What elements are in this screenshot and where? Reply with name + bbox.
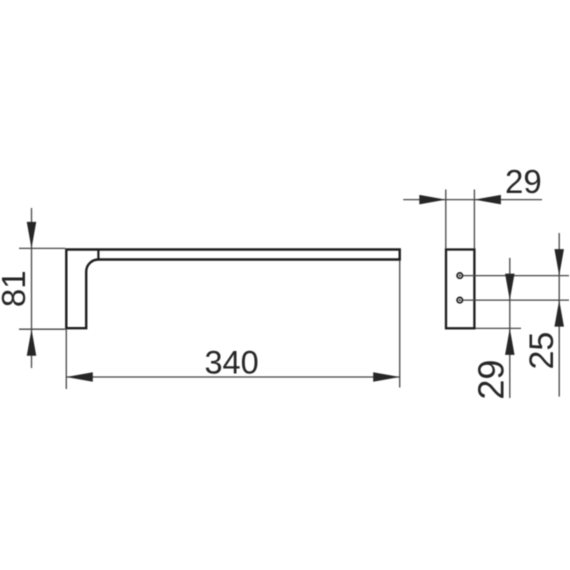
dim 25: arrow up xyxy=(554,300,564,327)
dim 29 bottom: dimension line xyxy=(509,258,511,398)
svg-text:340: 340 xyxy=(204,345,258,381)
svg-text:29: 29 xyxy=(505,163,542,200)
end view rectangle xyxy=(446,250,474,329)
svg-text:81: 81 xyxy=(0,270,32,307)
dim 81: arrow down xyxy=(27,222,37,249)
dim 29 top: arrow pointing left xyxy=(474,195,501,205)
dim 29 top: arrow pointing right xyxy=(419,195,446,205)
hole 2 leader line xyxy=(463,299,569,301)
dim 81: extension line top xyxy=(19,247,65,249)
dim 29 top: extension line left xyxy=(445,190,447,249)
dim 29 bottom: arrow up xyxy=(505,328,515,355)
seam line between wall plate and bar xyxy=(97,250,99,260)
svg-text:25: 25 xyxy=(523,332,561,370)
dim 81: arrow up xyxy=(27,329,37,356)
svg-text:29: 29 xyxy=(470,360,511,400)
dim 340: extension line right xyxy=(399,261,401,388)
hole 2 xyxy=(457,297,462,302)
dim 340: arrow left xyxy=(66,372,93,382)
rect bottom extension line xyxy=(476,327,522,329)
dim 29 bottom: arrow down xyxy=(505,274,515,301)
hole 1 leader line xyxy=(463,275,569,277)
dim 29 top: extension line right xyxy=(473,190,475,249)
dim 340: dimension line xyxy=(66,376,399,378)
dim 25: arrow down xyxy=(554,249,564,276)
dim 340: arrow right xyxy=(373,372,400,382)
dim 81: dimension line xyxy=(31,208,33,368)
dim 29 top: dimension line xyxy=(403,199,542,201)
hole 1 xyxy=(457,273,462,278)
dim 81: extension line bottom xyxy=(19,328,65,330)
side view outer contour xyxy=(66,250,399,329)
dim 25: dimension line xyxy=(558,233,560,397)
dim 340: extension line left xyxy=(65,329,67,389)
